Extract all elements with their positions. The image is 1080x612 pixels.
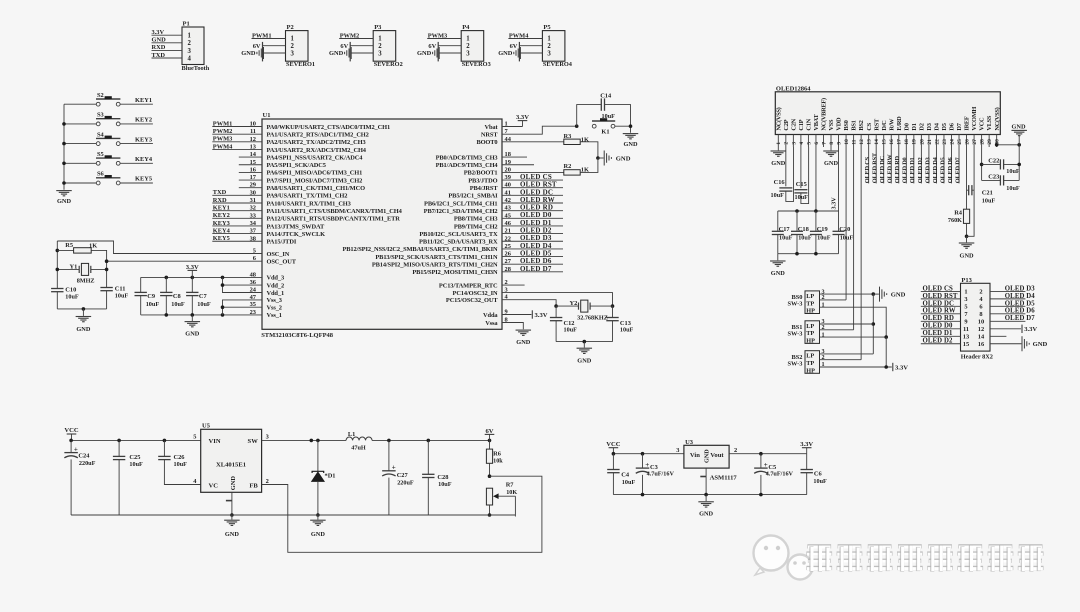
- power ground at P4 pin 3: [417, 47, 461, 59]
- capacitor C27 (220uF electrolytic): [382, 440, 414, 515]
- wire OLED cap rail bottom: [778, 253, 839, 255]
- svg-text:PA5/SPI1_SCK/ADC5: PA5/SPI1_SCK/ADC5: [267, 162, 326, 169]
- svg-text:TXD: TXD: [152, 52, 166, 59]
- svg-text:GND: GND: [329, 50, 344, 57]
- wire BS0 HP: [820, 307, 887, 337]
- wire BS2 pin1 to 3.3V: [820, 366, 892, 368]
- svg-text:PA11/USART1_CTS/USBDM/CANRX/TI: PA11/USART1_CTS/USBDM/CANRX/TIM1_CH4: [267, 208, 403, 215]
- svg-text:220uF: 220uF: [397, 480, 414, 487]
- svg-text:3: 3: [964, 296, 967, 303]
- switch S5 (KEY4): [64, 151, 153, 165]
- svg-text:D4: D4: [934, 122, 941, 130]
- svg-text:GND: GND: [311, 531, 325, 538]
- svg-text:IREF: IREF: [964, 116, 971, 130]
- svg-text:OLED12864: OLED12864: [776, 85, 811, 92]
- svg-text:13: 13: [867, 139, 873, 145]
- svg-text:GND: GND: [703, 449, 710, 463]
- svg-text:STM32103C8T6-LQFP48: STM32103C8T6-LQFP48: [261, 332, 334, 339]
- op-amp U1 MCU body (STM32F103C8T6 LQFP48): [261, 112, 502, 339]
- svg-text:GND: GND: [960, 252, 974, 259]
- svg-text:VCOMH: VCOMH: [971, 107, 978, 131]
- svg-text:C1P: C1P: [798, 119, 805, 130]
- svg-text:KEY5: KEY5: [213, 235, 230, 242]
- svg-text:+: +: [764, 461, 768, 469]
- capacitor C23 (10uF): [982, 173, 1020, 192]
- net label OLED RST (OLED pin 14): [872, 147, 879, 183]
- wire BS2 net from OLED pin 12: [860, 147, 862, 360]
- svg-text:Vss_2: Vss_2: [267, 305, 282, 312]
- svg-text:PC13/TAMPER_RTC: PC13/TAMPER_RTC: [439, 282, 498, 289]
- svg-text:PWM2: PWM2: [213, 128, 233, 135]
- svg-text:KEY4: KEY4: [213, 227, 231, 234]
- svg-text:GND: GND: [1012, 124, 1026, 131]
- svg-text:OLED D5: OLED D5: [1005, 300, 1035, 307]
- junction D1 gnd: [316, 513, 320, 517]
- svg-text:R3: R3: [564, 133, 572, 140]
- svg-text:GND: GND: [57, 198, 71, 205]
- net label OLED D0 / wire to P13 pin 11: [921, 323, 961, 330]
- svg-text:Vdda: Vdda: [483, 312, 498, 319]
- svg-text:ASM1117: ASM1117: [710, 475, 738, 482]
- wire VCOMH: [967, 147, 975, 236]
- svg-text:KEY3: KEY3: [135, 136, 152, 143]
- svg-text:GND: GND: [824, 160, 838, 167]
- svg-text:RXD: RXD: [213, 197, 227, 204]
- svg-text:PB6/I2C1_SCL/TIM4_CH1: PB6/I2C1_SCL/TIM4_CH1: [424, 200, 497, 207]
- capacitor C6 (10uF): [801, 454, 828, 495]
- svg-text:1K: 1K: [89, 243, 97, 250]
- capacitor C25 (10uF): [113, 440, 143, 515]
- junction reset node left: [575, 124, 579, 128]
- svg-text:GND: GND: [225, 531, 239, 538]
- junction key bus row 5: [62, 181, 66, 185]
- svg-text:28: 28: [980, 139, 986, 145]
- junction Y2 ground: [583, 340, 587, 344]
- net label KEY1 / wire to U1 pin 32: [212, 204, 262, 211]
- net label PWM2 / wire to P3 pin 1: [339, 32, 373, 39]
- svg-text:47uH: 47uH: [351, 444, 366, 451]
- svg-text:1: 1: [547, 36, 551, 43]
- wire BS1 pin3 to gnd bus: [820, 323, 874, 325]
- svg-text:10uF: 10uF: [564, 327, 578, 334]
- capacitor C28 (10uF): [422, 440, 452, 515]
- svg-text:OLED D6: OLED D6: [947, 157, 954, 183]
- svg-text:10uF: 10uF: [65, 293, 79, 300]
- svg-text:4.7uF/16V: 4.7uF/16V: [647, 471, 675, 478]
- svg-text:OLED RST: OLED RST: [923, 293, 958, 300]
- svg-text:SW-3: SW-3: [787, 301, 802, 308]
- junction key bus row 4: [62, 162, 66, 166]
- net label TXD / wire to U1 pin 30: [212, 189, 262, 196]
- svg-text:TXD: TXD: [213, 189, 227, 196]
- pushbutton K1 (reset): [592, 118, 615, 135]
- svg-text:2: 2: [547, 43, 551, 50]
- connector P2 (SEVERO1): [286, 24, 316, 68]
- svg-text:Vss_1: Vss_1: [267, 312, 282, 319]
- svg-text:PB1/ADC9/TIM3_CH4: PB1/ADC9/TIM3_CH4: [436, 162, 499, 169]
- svg-text:C24: C24: [78, 453, 90, 460]
- connector P4 (SEVERO3): [461, 24, 491, 68]
- capacitor C17 (10uF): [772, 211, 793, 254]
- svg-text:TP: TP: [806, 330, 814, 337]
- junction Vss rail: [191, 313, 195, 317]
- wire BS gnd bus vertical: [872, 294, 874, 354]
- connector P13 (Header 8X2): [961, 277, 993, 361]
- wire C16 return: [786, 147, 794, 201]
- wire C14 right leg: [605, 105, 631, 127]
- wire Y1 ground rail: [57, 308, 106, 310]
- svg-text:OLED D6: OLED D6: [1005, 308, 1035, 315]
- svg-text:15: 15: [963, 341, 969, 348]
- svg-text:NC(VSS): NC(VSS): [775, 107, 782, 130]
- svg-text:PWM1: PWM1: [213, 120, 233, 127]
- connector P1 (BlueTooth): [182, 21, 210, 72]
- wire U1 Vdda: [502, 314, 531, 316]
- net label PWM3 / wire to P4 pin 1: [427, 32, 461, 39]
- power 3.3V (LDO output): [800, 441, 813, 454]
- junction D1: [316, 439, 320, 443]
- svg-text:Vbat: Vbat: [484, 124, 498, 131]
- svg-text:22: 22: [934, 139, 940, 145]
- svg-text:C7: C7: [199, 293, 208, 300]
- svg-text:11: 11: [963, 326, 969, 333]
- svg-text:OLED RW: OLED RW: [923, 308, 956, 315]
- svg-text:VCC: VCC: [606, 441, 621, 448]
- svg-text:PA9/USART1_TX/TIM1_CH2: PA9/USART1_TX/TIM1_CH2: [267, 193, 348, 200]
- svg-text:10k: 10k: [493, 457, 503, 464]
- power 6V at P4 pin 2: [428, 42, 461, 62]
- junction Vdd_2: [221, 283, 225, 287]
- junction BS1 gnd: [872, 322, 876, 326]
- svg-text:3.3V: 3.3V: [535, 312, 548, 319]
- svg-text:PA4/SPI1_NSS/USART2_CK/ADC4: PA4/SPI1_NSS/USART2_CK/ADC4: [267, 154, 364, 161]
- svg-text:10uF: 10uF: [438, 481, 452, 488]
- inductor L1 (47uH): [346, 431, 372, 451]
- junction Y2 right: [611, 304, 615, 308]
- wire BS2 pin2 to BS2 net: [820, 359, 862, 361]
- svg-text:14: 14: [978, 334, 985, 341]
- svg-text:Vdd_3: Vdd_3: [267, 275, 285, 282]
- svg-text:C11: C11: [115, 285, 126, 292]
- wire OSC_OUT: [107, 260, 262, 262]
- wire 3.3V rail to U1 Vdd_3: [141, 276, 262, 278]
- svg-text:2: 2: [291, 43, 295, 50]
- ground (OLED VSS pin 8): [823, 147, 839, 167]
- svg-text:C4: C4: [621, 471, 630, 478]
- junction Vss rail: [221, 313, 225, 317]
- wire buck ground rail: [71, 514, 515, 516]
- svg-text:PA1/USART2_RTS/ADC1/TIM2_CH2: PA1/USART2_RTS/ADC1/TIM2_CH2: [267, 131, 369, 138]
- svg-text:C16: C16: [774, 179, 786, 186]
- svg-text:16: 16: [889, 139, 895, 145]
- net label OLED D0 (OLED pin 18): [902, 147, 909, 183]
- svg-text:10uF: 10uF: [197, 301, 211, 308]
- net label OLED RD / wire from U1: [502, 204, 563, 212]
- svg-text:6V: 6V: [428, 43, 436, 50]
- net label KEY3 / wire to U1 pin 34: [212, 220, 262, 227]
- svg-text:PB15/SPI2_MOSI/TIM1_CH3N: PB15/SPI2_MOSI/TIM1_CH3N: [412, 269, 498, 276]
- power 3.3V (P13 pin 12): [990, 325, 1037, 334]
- junction Vdd rail: [191, 276, 195, 280]
- wire U3 Vout to 3.3V: [729, 453, 807, 455]
- svg-text:2: 2: [466, 43, 470, 50]
- svg-text:2: 2: [378, 43, 382, 50]
- net label OLED D1 / wire from U1: [502, 219, 563, 227]
- svg-text:SEVERO1: SEVERO1: [286, 61, 315, 68]
- junction R5 left: [56, 249, 60, 253]
- net label KEY2 / wire to U1 pin 33: [212, 212, 262, 219]
- svg-text:GND: GND: [771, 270, 785, 277]
- power 3.3V (BS switches): [893, 363, 908, 372]
- svg-text:PB3/JTDO: PB3/JTDO: [468, 177, 497, 184]
- ground (U3): [698, 495, 714, 518]
- svg-text:27: 27: [972, 139, 978, 145]
- svg-text:NC(VBREF): NC(VBREF): [821, 98, 828, 131]
- svg-text:6V: 6V: [510, 43, 518, 50]
- ground (U5): [224, 515, 240, 538]
- svg-text:5: 5: [193, 434, 196, 441]
- wire BS0 sel: [820, 299, 847, 301]
- svg-text:3.3V: 3.3V: [186, 264, 199, 271]
- svg-text:10uF: 10uF: [795, 194, 809, 201]
- wire stub U1 pin 17: [239, 179, 262, 181]
- svg-text:3.3V: 3.3V: [831, 197, 838, 210]
- ground (Y1): [76, 309, 92, 333]
- junction U3 gnd: [704, 493, 708, 497]
- net label OLED RST / wire from U1: [502, 181, 563, 189]
- net label OLED RD / wire to P13 pin 9: [921, 315, 961, 322]
- svg-text:TP: TP: [806, 300, 814, 307]
- svg-text:VCC: VCC: [64, 427, 79, 434]
- svg-text:KEY3: KEY3: [213, 220, 230, 227]
- junction boot resistors: [596, 156, 600, 160]
- net label OLED CS / wire to P13 pin 1: [921, 285, 961, 292]
- svg-text:3.3V: 3.3V: [152, 29, 165, 36]
- svg-text:SW: SW: [248, 438, 259, 445]
- svg-text:P3: P3: [374, 24, 382, 31]
- svg-text:1: 1: [776, 142, 782, 145]
- wire BS0 net from OLED pin 10: [845, 147, 847, 300]
- power ground (BS switches): [873, 287, 905, 302]
- svg-text:10uF: 10uF: [771, 192, 785, 199]
- power ground at P3 pin 3: [329, 47, 373, 59]
- net label OLED DC / wire to P13 pin 5: [921, 300, 961, 307]
- svg-text:OLED DC: OLED DC: [879, 155, 886, 183]
- wire R2 right: [580, 158, 598, 172]
- svg-text:OLED D3: OLED D3: [1005, 285, 1035, 292]
- ground (Vssa): [516, 330, 532, 346]
- net label OLED D7 / wire to P13 pin 10: [990, 315, 1035, 322]
- svg-text:D7: D7: [956, 122, 963, 130]
- svg-text:OLED D4: OLED D4: [932, 156, 939, 183]
- svg-text:3: 3: [291, 50, 295, 57]
- net label OLED D1 (OLED pin 19): [909, 147, 916, 183]
- net label OLED RD (OLED pin 17): [894, 147, 901, 183]
- svg-text:R5: R5: [65, 242, 73, 249]
- power 6V at P5 pin 2: [510, 42, 543, 62]
- svg-text:HP: HP: [806, 368, 815, 375]
- svg-text:+: +: [74, 446, 78, 454]
- junction C22 right: [1017, 163, 1021, 167]
- junction C5: [759, 452, 763, 456]
- capacitor C24 (220uF electrolytic): [64, 440, 95, 515]
- net label OLED D4 (OLED pin 22): [932, 147, 939, 183]
- svg-text:10uF: 10uF: [813, 478, 827, 485]
- connector P5 (SEVERO4): [542, 24, 572, 68]
- svg-text:8: 8: [829, 142, 835, 145]
- capacitor C11 (10uF): [100, 285, 128, 309]
- svg-text:PWM3: PWM3: [428, 32, 448, 39]
- svg-text:PA0/WKUP/USART2_CTS/ADC0/TIM2_: PA0/WKUP/USART2_CTS/ADC0/TIM2_CH1: [267, 124, 391, 131]
- ground (key bus): [56, 191, 72, 206]
- junction cap rail bottom 2: [814, 252, 818, 256]
- svg-text:GND: GND: [577, 358, 591, 365]
- diode D1 (schottky): [311, 440, 336, 515]
- svg-text:C23: C23: [988, 173, 999, 180]
- net label PWM3 / wire to U1 pin 12: [212, 136, 262, 143]
- net label PWM1 / wire to P2 pin 1: [252, 32, 286, 39]
- junction R7 bottom: [488, 513, 492, 517]
- junction C28: [427, 439, 431, 443]
- svg-text:GND: GND: [417, 50, 432, 57]
- svg-text:OSC_IN: OSC_IN: [267, 251, 290, 258]
- svg-text:OLED RD: OLED RD: [923, 315, 954, 322]
- svg-text:C15: C15: [796, 181, 807, 188]
- svg-text:SW-3: SW-3: [787, 331, 802, 338]
- svg-text:BOOT0: BOOT0: [476, 139, 497, 146]
- ground (Y2): [577, 342, 593, 365]
- junction VCC C22: [980, 163, 984, 167]
- svg-text:C2N: C2N: [790, 118, 797, 130]
- OLED12864 pin stubs and pin numbers 1-30: [776, 135, 1000, 148]
- svg-text:PA13/JTMS_SWDAT: PA13/JTMS_SWDAT: [267, 223, 325, 230]
- svg-text:PWM1: PWM1: [252, 32, 272, 39]
- svg-text:PB4/JRST: PB4/JRST: [470, 185, 499, 192]
- svg-text:C17: C17: [779, 226, 791, 233]
- junction reset node right: [629, 124, 633, 128]
- svg-text:PA3/USART2_RX/ADC3/TIM2_CH4: PA3/USART2_RX/ADC3/TIM2_CH4: [267, 147, 367, 154]
- switch BS1 (SW-3): [787, 318, 824, 344]
- svg-text:VCC: VCC: [979, 117, 986, 131]
- svg-text:Header 8X2: Header 8X2: [961, 353, 993, 360]
- svg-text:10uF: 10uF: [982, 197, 996, 204]
- svg-text:32.768KHZ: 32.768KHZ: [577, 314, 608, 321]
- svg-text:12: 12: [978, 326, 984, 333]
- svg-text:OLED D1: OLED D1: [923, 330, 953, 337]
- wire pin30 drop: [996, 145, 998, 147]
- svg-text:2: 2: [188, 40, 192, 47]
- svg-text:SEVERO3: SEVERO3: [462, 61, 491, 68]
- junction key bus row 3: [62, 142, 66, 146]
- svg-text:1: 1: [291, 36, 295, 43]
- svg-text:10uF: 10uF: [115, 292, 129, 299]
- svg-text:15: 15: [882, 139, 888, 145]
- wire BS0 pin3 to gnd bus: [820, 293, 874, 295]
- svg-text:3: 3: [188, 48, 192, 55]
- watermark text blobs: [806, 544, 1043, 571]
- wire C14 left leg: [577, 105, 601, 127]
- net label OLED D3 / wire to P13 pin 2: [990, 285, 1035, 292]
- svg-text:9: 9: [964, 319, 967, 326]
- resistor R6 (10k): [486, 440, 503, 476]
- capacitor C3 (4.7uF/16V electrolytic): [636, 454, 675, 495]
- svg-text:VDD: VDD: [836, 117, 843, 131]
- svg-text:KEY1: KEY1: [135, 97, 152, 104]
- power VCC (LDO input): [606, 441, 621, 454]
- wire BS1 net from OLED pin 11: [853, 147, 855, 330]
- svg-text:VC: VC: [209, 482, 219, 489]
- wire stub U1 pin 2 (PC13): [502, 284, 525, 286]
- wire U1 BOOT0 to R3: [502, 141, 564, 143]
- svg-text:8: 8: [979, 311, 982, 318]
- svg-text:PA8/USART1_CK/TIM1_CH1/MCO: PA8/USART1_CK/TIM1_CH1/MCO: [267, 185, 366, 192]
- svg-text:+: +: [645, 461, 649, 469]
- svg-text:PB14/SPI2_MISO/USART3_RTS/TIM1: PB14/SPI2_MISO/USART3_RTS/TIM1_CH2N: [372, 262, 498, 269]
- svg-text:10uF: 10uF: [171, 301, 185, 308]
- svg-text:SW-3: SW-3: [787, 360, 802, 367]
- junction key bus row 2: [62, 122, 66, 126]
- svg-text:GND: GND: [891, 292, 906, 299]
- net label OLED RW / wire from U1: [502, 196, 563, 204]
- svg-text:P13: P13: [961, 277, 972, 284]
- net label 3.3V / wire to P1 pin 1: [152, 29, 183, 36]
- svg-text:NC(VSS): NC(VSS): [994, 107, 1001, 130]
- power 3.3V (Vdd rail): [186, 264, 199, 278]
- wire C26 to VC: [164, 460, 200, 485]
- svg-text:OSC_OUT: OSC_OUT: [267, 259, 297, 266]
- svg-text:10uF: 10uF: [622, 479, 636, 486]
- capacitor C12 (10uF): [550, 306, 577, 342]
- wire Vss bus vertical: [223, 300, 263, 315]
- svg-text:24: 24: [949, 139, 955, 145]
- svg-text:LP: LP: [806, 323, 814, 330]
- wire U3 GND pin: [700, 468, 737, 495]
- svg-text:RXD: RXD: [152, 44, 166, 51]
- wire C15 return: [801, 147, 809, 204]
- svg-text:GND: GND: [624, 141, 638, 148]
- power ground at P2 pin 3: [241, 47, 285, 59]
- svg-text:PB0/ADC8/TIM3_CH3: PB0/ADC8/TIM3_CH3: [436, 154, 498, 161]
- power 3.3V (Vdda): [532, 310, 547, 319]
- svg-text:10uF: 10uF: [779, 234, 793, 241]
- switch S2 (KEY1): [64, 92, 153, 106]
- svg-text:10: 10: [978, 319, 984, 326]
- svg-text:OLED D7: OLED D7: [520, 265, 552, 273]
- svg-text:OLED D7: OLED D7: [1005, 315, 1035, 322]
- svg-text:C1N: C1N: [806, 118, 813, 130]
- svg-text:PA7/SPI1_MOSI/ADC7/TIM3_CH2: PA7/SPI1_MOSI/ADC7/TIM3_CH2: [267, 177, 363, 184]
- svg-text:2: 2: [734, 447, 737, 454]
- svg-text:SEVERO2: SEVERO2: [374, 61, 403, 68]
- wire R3 right: [580, 142, 598, 158]
- svg-text:OLED D2: OLED D2: [923, 338, 953, 345]
- svg-text:HP: HP: [806, 338, 815, 345]
- wire U5 SW output: [262, 439, 347, 441]
- wire stub U1 pin 29: [239, 187, 262, 189]
- capacitor C19 (10uF): [810, 211, 831, 254]
- net label PWM2 / wire to U1 pin 11: [212, 128, 262, 135]
- svg-text:10uF: 10uF: [620, 327, 634, 334]
- svg-text:Vssa: Vssa: [485, 320, 498, 327]
- connector OLED12864 body: [775, 85, 1000, 134]
- svg-text:10uF: 10uF: [798, 234, 812, 241]
- wire R4 bottom to ground junction: [966, 223, 968, 236]
- net label OLED D6 (OLED pin 24): [947, 147, 954, 183]
- capacitor C5 (4.7uF/16V electrolytic): [754, 454, 793, 495]
- svg-text:10uF: 10uF: [1006, 168, 1020, 175]
- svg-text:9: 9: [836, 142, 842, 145]
- wire Vss_1 rail: [141, 314, 262, 316]
